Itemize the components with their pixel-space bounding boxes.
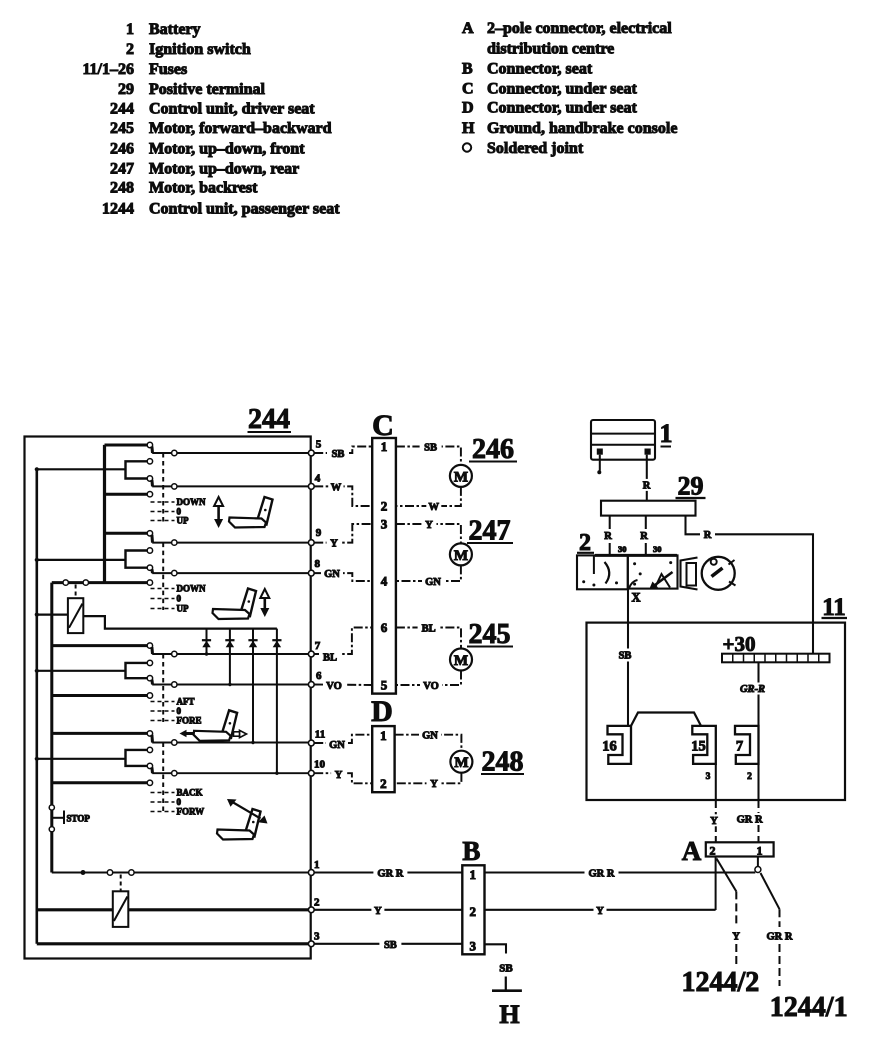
pin 3 of 244 <box>308 941 314 947</box>
wire: row 3 SB from 244 to B <box>314 943 462 945</box>
relay K2 mechanical dashed link <box>120 875 122 891</box>
svg-text:Motor, backrest: Motor, backrest <box>149 180 258 197</box>
switch group S1 contacts <box>105 444 148 447</box>
switch S4 position labels <box>151 792 175 794</box>
svg-text:SB: SB <box>619 651 632 662</box>
svg-text:Connector, seat: Connector, seat <box>487 61 593 78</box>
svg-text:H: H <box>499 1000 519 1029</box>
svg-text:Y: Y <box>430 779 438 790</box>
wire: battery negative stub <box>599 455 601 471</box>
relay K1 mechanical dashed link <box>75 585 77 598</box>
svg-text:3: 3 <box>706 772 711 782</box>
pin 5 of 244 <box>308 450 314 456</box>
svg-text:FORE: FORE <box>177 716 202 726</box>
svg-text:+30: +30 <box>723 632 756 656</box>
wire: bracket joining contacts 2-3 of S3 <box>126 663 148 678</box>
svg-text:Motor, forward–backward: Motor, forward–backward <box>149 120 332 137</box>
wire: jumper fuse16 top to fuse15 top <box>631 713 701 726</box>
soldered joint symbol <box>463 143 471 151</box>
svg-text:GR R: GR R <box>589 869 615 880</box>
wire: relay K1 output to diode bus <box>83 616 277 629</box>
svg-text:W: W <box>331 483 342 494</box>
switch S4 contact circles <box>147 731 152 736</box>
wire: STOP branch <box>52 817 64 819</box>
svg-text:Motor, up–down, rear: Motor, up–down, rear <box>149 161 299 178</box>
svg-text:Y: Y <box>710 816 718 827</box>
switch S1 contact circles <box>147 442 152 447</box>
wire: S1 output rows to pins <box>152 452 311 454</box>
svg-text:6: 6 <box>316 670 322 682</box>
wire: fuse 15 output pin 3 down to connector A <box>715 764 717 800</box>
svg-text:Y: Y <box>732 932 740 943</box>
svg-text:D: D <box>371 695 393 728</box>
icon: seat up-down rear (group S2) <box>213 589 257 620</box>
pin 4 of 244 <box>308 484 314 490</box>
svg-text:0: 0 <box>177 594 182 604</box>
wire: pin 2 row (Y) inside 244 <box>37 908 311 911</box>
wire: bracket feed from bus v2 for S1 <box>37 468 126 470</box>
svg-text:244: 244 <box>248 404 290 435</box>
svg-text:11: 11 <box>315 729 325 741</box>
svg-text:15: 15 <box>691 739 706 755</box>
legend: connector list right column <box>462 20 677 157</box>
svg-text:W: W <box>429 502 440 513</box>
svg-text:BACK: BACK <box>177 788 203 798</box>
wire: 29 stub R to ignition terminal 30 (right) <box>645 516 647 529</box>
wire: motor 248 to D2 (Y) <box>395 773 462 783</box>
switch S3 blades <box>150 647 154 654</box>
pin 7 of 244 <box>308 651 314 657</box>
control unit 244 box <box>25 437 311 959</box>
ignition switch key cylinder <box>702 557 735 590</box>
wire: pin 3 row (SB) inside 244 <box>37 942 311 945</box>
wire: bracket joining contacts 2-3 of S4 <box>126 750 148 766</box>
diode D2 <box>229 629 231 685</box>
wire: C6 to motor 245 (BL) <box>396 628 461 649</box>
switch S2 blades <box>150 535 154 543</box>
svg-text:Y: Y <box>596 906 604 917</box>
relay K1 coil <box>68 598 83 633</box>
motor 248 <box>450 751 472 773</box>
switch S1 blades <box>150 446 154 453</box>
pin 8 of 244 <box>308 570 314 576</box>
relay K2 <box>113 891 129 927</box>
switch S1 position labels <box>151 501 175 503</box>
mechanical link dashed S3 <box>162 654 164 722</box>
switch group S3 contacts <box>52 644 148 647</box>
wire: motor 245 to C5 (VO) <box>396 671 461 686</box>
wire: pin 1 row (GR-R) inside 244 <box>52 872 311 874</box>
svg-text:2: 2 <box>747 772 752 782</box>
svg-text:SB: SB <box>499 963 513 975</box>
svg-text:R: R <box>604 531 612 542</box>
svg-text:4: 4 <box>315 473 321 485</box>
svg-text:Y: Y <box>425 520 433 531</box>
ground H, handbrake console <box>505 977 507 991</box>
svg-text:B: B <box>462 61 473 78</box>
wire: branch A pin2 to 1244/2 <box>717 859 737 892</box>
wire: pin5 to C1 (SB) <box>314 447 372 454</box>
svg-text:2: 2 <box>470 904 477 919</box>
svg-text:7: 7 <box>736 739 743 755</box>
svg-text:Positive terminal: Positive terminal <box>149 81 266 98</box>
wire: fuse 7 output pin 2 down to connector A <box>757 764 759 800</box>
svg-text:GN: GN <box>422 731 438 742</box>
svg-text:2: 2 <box>380 776 387 791</box>
svg-text:3: 3 <box>381 517 388 532</box>
switch S2 contact circles <box>147 531 152 536</box>
switch S3 contact circles <box>147 643 152 648</box>
svg-text:2: 2 <box>710 844 716 858</box>
svg-text:245: 245 <box>110 120 134 137</box>
svg-text:GR R: GR R <box>377 869 403 880</box>
wire: C1 to motor 246 (SB) <box>396 447 461 465</box>
svg-text:SB: SB <box>384 940 397 951</box>
svg-text:245: 245 <box>469 619 511 650</box>
svg-text:M: M <box>454 755 468 771</box>
svg-text:R: R <box>640 531 648 542</box>
svg-text:1: 1 <box>380 728 387 743</box>
switch S2 position labels <box>151 588 175 590</box>
svg-text:GR-R: GR-R <box>740 684 765 695</box>
wire: 29 to fuse box 11 (R) <box>686 516 814 654</box>
wire: bracket feed from bus v2 for S3 <box>37 670 126 672</box>
wire: pin8 to C4 (GN) <box>314 573 372 581</box>
wire: branch A pin1 to 1244/1 <box>761 873 780 909</box>
motor 245 <box>450 649 472 671</box>
wire: S2 output rows to pins <box>152 542 311 544</box>
icon: seat fore-aft (group S3) <box>194 710 238 741</box>
wire: C3 to motor 247 (Y) <box>396 524 461 543</box>
svg-text:X: X <box>632 591 641 605</box>
wire: S3 output rows to pins <box>152 653 311 655</box>
mechanical link dashed S2 <box>162 543 164 610</box>
svg-text:D: D <box>462 100 474 117</box>
svg-text:Fuses: Fuses <box>149 61 187 78</box>
svg-text:GN: GN <box>425 577 441 588</box>
node: joints on bus v3 <box>49 805 54 810</box>
svg-text:1244/1: 1244/1 <box>770 992 848 1023</box>
wire: battery positive R to terminal 29 <box>646 455 648 501</box>
svg-text:248: 248 <box>482 747 524 778</box>
svg-text:3: 3 <box>470 938 477 953</box>
mechanical link dashed S1 <box>162 453 164 522</box>
wire: bracket feed from bus v2 for S2 <box>37 559 126 561</box>
fuse 16 <box>608 726 632 764</box>
svg-text:29: 29 <box>118 81 134 98</box>
svg-text:STOP: STOP <box>67 814 91 824</box>
svg-text:GN: GN <box>329 740 345 751</box>
wire: motor 247 to C4 (GN) <box>396 565 461 581</box>
svg-text:Ignition switch: Ignition switch <box>149 41 251 58</box>
ignition switch key bracket <box>681 558 698 590</box>
svg-text:Control unit, driver seat: Control unit, driver seat <box>149 101 315 118</box>
ignition switch internals <box>593 555 595 574</box>
svg-text:247: 247 <box>110 161 134 178</box>
svg-text:R: R <box>704 530 712 541</box>
wire: B1 to A pin1 (GR-R) <box>485 871 756 873</box>
wire: bracket feed from bus v2 for S4 <box>37 758 126 760</box>
svg-text:2: 2 <box>314 897 320 909</box>
svg-text:246: 246 <box>472 434 514 465</box>
svg-text:GR R: GR R <box>737 815 763 826</box>
motor 246 <box>450 465 472 487</box>
svg-text:10: 10 <box>314 759 326 771</box>
svg-text:2–pole connector, electrical: 2–pole connector, electrical <box>487 20 672 37</box>
svg-text:3: 3 <box>314 931 320 943</box>
wire: pin6 to C5 (VO) <box>314 684 372 687</box>
svg-text:SB: SB <box>424 442 437 453</box>
switch S3 position labels <box>151 701 175 703</box>
mechanical link dashed S4 <box>162 743 164 814</box>
diode D3 <box>252 629 254 743</box>
legend: component list left column <box>82 21 340 218</box>
svg-text:1: 1 <box>126 21 134 38</box>
icon: seat up-down front (group S1) <box>229 497 273 528</box>
svg-text:1: 1 <box>314 859 320 871</box>
diode D1 <box>206 629 208 654</box>
svg-text:VO: VO <box>423 681 439 692</box>
wire: pin10 to D2 (Y) <box>314 773 372 783</box>
svg-text:11/1–26: 11/1–26 <box>82 61 134 78</box>
svg-text:30: 30 <box>618 544 627 554</box>
pin 1 of 244 <box>308 870 314 876</box>
wire: GR-R from bus bar to fuse 7 <box>757 662 759 726</box>
svg-text:A: A <box>462 20 474 37</box>
motor 247 <box>450 543 472 565</box>
fuse 7 <box>735 726 759 764</box>
svg-text:GN: GN <box>324 569 340 580</box>
pin 11 of 244 <box>308 740 314 746</box>
wire: relay contact row (v3 to S2 contact 4) <box>52 581 148 584</box>
switch group S4 contacts <box>52 732 148 735</box>
wire: pin7 to C6 (BL) <box>314 628 372 655</box>
svg-text:0: 0 <box>177 797 182 807</box>
wire: A pin2 down to Y row <box>715 857 717 911</box>
svg-text:8: 8 <box>314 558 320 570</box>
diode D4 <box>276 629 278 774</box>
wire: B2 to A pin2 (Y) <box>485 909 716 911</box>
svg-text:2: 2 <box>381 499 388 514</box>
svg-text:1: 1 <box>381 439 388 454</box>
svg-text:6: 6 <box>381 620 388 635</box>
svg-text:5: 5 <box>381 678 388 693</box>
wire: pin11 to D1 (GN) <box>314 735 372 743</box>
svg-text:FORW: FORW <box>177 807 205 817</box>
wire: bracket joining contacts 2-3 of S1 <box>126 461 148 478</box>
svg-text:Y: Y <box>330 539 338 550</box>
wire: bus v3 (relay contact bus down to pin1 row) <box>50 583 53 873</box>
svg-text:DOWN: DOWN <box>177 497 207 507</box>
svg-text:Y: Y <box>374 906 382 917</box>
svg-text:30: 30 <box>653 544 662 554</box>
svg-text:H: H <box>462 120 475 137</box>
svg-text:UP: UP <box>177 516 189 526</box>
svg-text:Soldered joint: Soldered joint <box>487 140 584 157</box>
wire: bus B (contact feed bus) <box>103 445 106 583</box>
wire: SB from ignition X down to fuse 16 <box>627 589 629 726</box>
wire: D1 to motor 248 (GN) <box>395 735 462 751</box>
svg-text:M: M <box>454 548 468 564</box>
battery 1 <box>591 420 655 460</box>
svg-text:Connector, under seat: Connector, under seat <box>487 81 637 98</box>
svg-text:AFT: AFT <box>177 697 195 707</box>
pin 6 of 244 <box>308 682 314 688</box>
svg-text:distribution centre: distribution centre <box>487 41 614 58</box>
svg-text:M: M <box>454 469 468 485</box>
svg-text:246: 246 <box>110 141 134 158</box>
svg-text:247: 247 <box>469 516 511 547</box>
wire: row 2 Y from 244 to B <box>314 909 462 911</box>
svg-text:1244: 1244 <box>102 201 134 218</box>
svg-text:BL: BL <box>422 624 436 635</box>
fuse 15 <box>692 726 716 764</box>
svg-text:244: 244 <box>110 101 134 118</box>
svg-text:UP: UP <box>177 604 189 614</box>
svg-text:DOWN: DOWN <box>177 584 207 594</box>
pin 2 of 244 <box>308 907 314 913</box>
wire: bracket joining contacts 2-3 of S2 <box>126 551 148 568</box>
svg-text:Connector, under seat: Connector, under seat <box>487 100 637 117</box>
svg-text:SB: SB <box>332 449 345 460</box>
wire: relay K1 coil left to bus v2 <box>37 613 68 615</box>
svg-text:16: 16 <box>602 739 617 755</box>
svg-text:R: R <box>643 481 651 492</box>
svg-text:0: 0 <box>177 706 182 716</box>
wire: B3 to ground H (SB) <box>485 944 507 953</box>
svg-text:5: 5 <box>316 439 322 451</box>
svg-text:1244/2: 1244/2 <box>682 967 760 998</box>
svg-text:A: A <box>682 836 702 866</box>
wire: pin9 to C3 (Y) <box>314 524 372 543</box>
svg-text:248: 248 <box>110 180 134 197</box>
svg-text:9: 9 <box>316 527 322 539</box>
svg-text:Ground, handbrake console: Ground, handbrake console <box>487 120 677 137</box>
svg-text:C: C <box>462 81 474 98</box>
svg-text:B: B <box>462 836 480 866</box>
svg-text:BL: BL <box>323 652 337 663</box>
svg-text:M: M <box>454 653 468 669</box>
svg-text:29: 29 <box>678 472 704 501</box>
svg-text:7: 7 <box>315 640 321 652</box>
wire: bus v2 (bracket feed bus) <box>35 469 38 944</box>
wire: row 1 GR-R from 244 to B <box>314 871 462 873</box>
svg-text:Motor, up–down, front: Motor, up–down, front <box>149 141 305 158</box>
svg-text:Control unit, passenger seat: Control unit, passenger seat <box>149 201 340 218</box>
fuse box 11 <box>587 623 846 800</box>
switch S4 blades <box>150 735 154 743</box>
svg-text:1: 1 <box>470 867 477 882</box>
pin 10 of 244 <box>308 770 314 776</box>
svg-text:2: 2 <box>126 41 134 58</box>
icon: seat backrest tilt (group S4) <box>217 809 261 840</box>
wire: pin4 to C2 (W) <box>314 486 372 506</box>
wire: A pin1 stub and joint <box>757 857 759 867</box>
switch group S2 contacts <box>105 532 148 535</box>
svg-text:Y: Y <box>335 770 343 781</box>
svg-text:GR R: GR R <box>767 932 793 943</box>
svg-text:1: 1 <box>757 844 763 858</box>
wire: S4 output rows to pins <box>152 742 311 744</box>
svg-text:4: 4 <box>381 574 388 589</box>
pin 9 of 244 <box>308 540 314 546</box>
svg-text:Battery: Battery <box>149 21 201 38</box>
svg-text:1: 1 <box>660 419 673 448</box>
svg-text:VO: VO <box>326 681 342 692</box>
wire: 29 stub R to ignition terminal 30 (left) <box>609 516 611 529</box>
wire: motor 246 to C2 (W) <box>396 487 461 506</box>
